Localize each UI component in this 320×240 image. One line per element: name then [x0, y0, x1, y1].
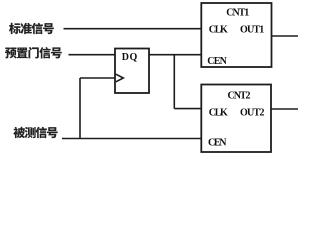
svg-text:OUT1: OUT1 [240, 25, 264, 36]
svg-text:CEN: CEN [207, 56, 227, 67]
svg-text:OUT2: OUT2 [240, 108, 265, 119]
svg-text:CLK: CLK [209, 25, 228, 36]
svg-text:Q: Q [130, 52, 138, 63]
svg-text:CLK: CLK [209, 108, 228, 119]
svg-text:CEN: CEN [208, 137, 227, 148]
svg-text:CNT2: CNT2 [228, 91, 251, 102]
svg-text:CNT1: CNT1 [226, 8, 249, 19]
svg-text:D: D [122, 52, 129, 63]
